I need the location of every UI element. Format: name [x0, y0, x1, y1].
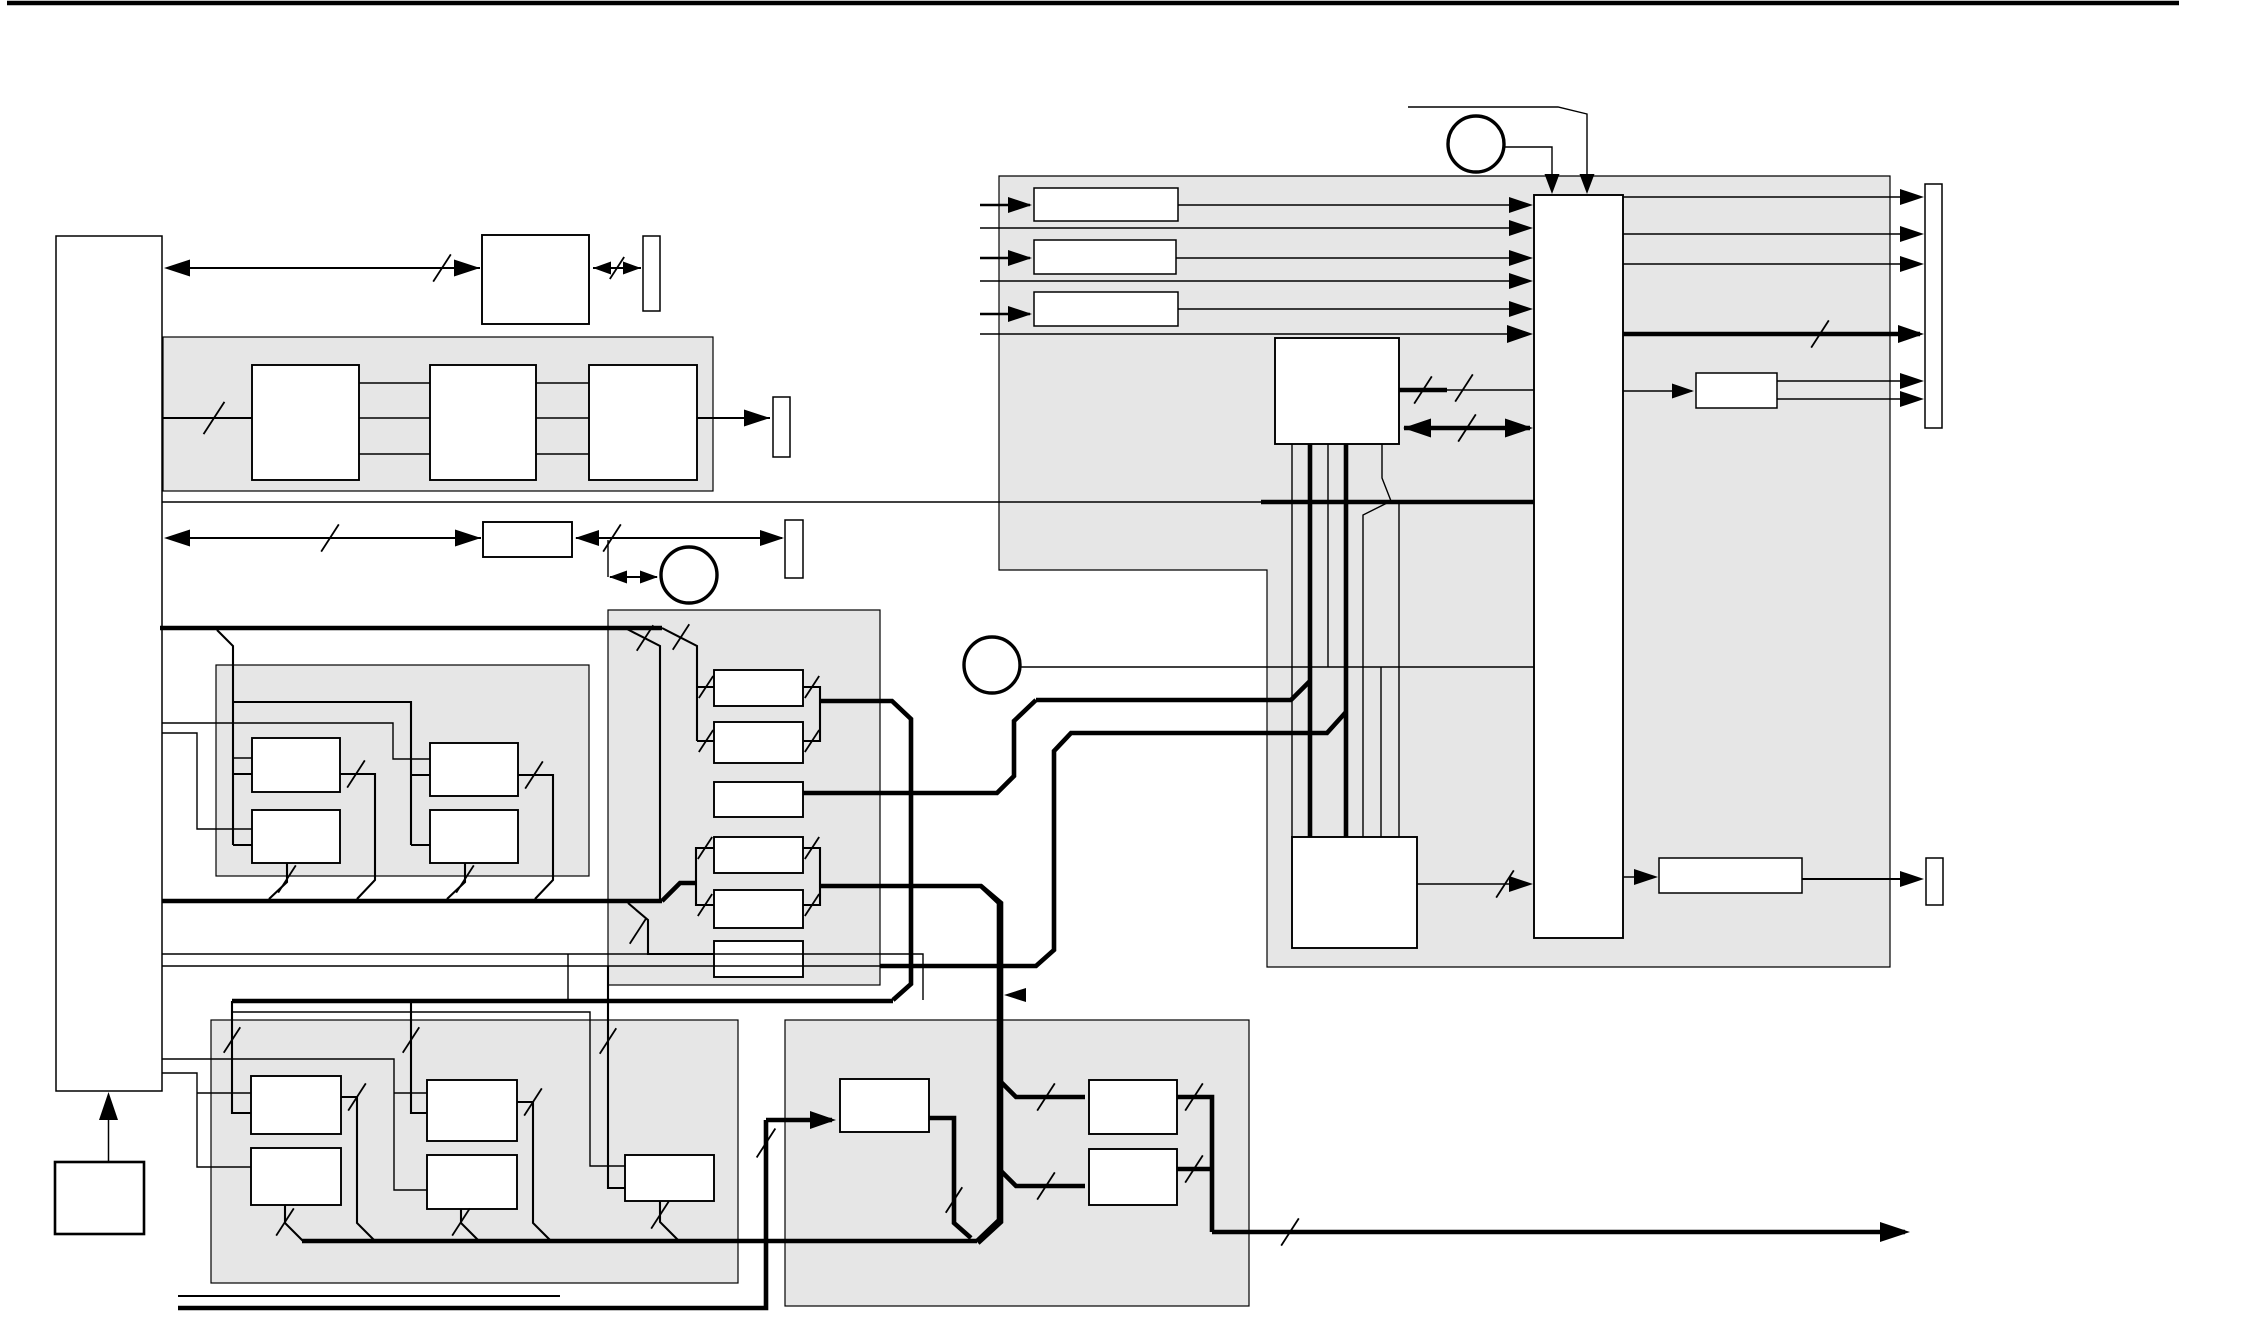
control box: [1275, 338, 1399, 444]
wire thin y1012 line to E: [232, 1012, 625, 1166]
circle c1: [1448, 116, 1504, 172]
wire S3 output to column: [1178, 308, 1528, 310]
box S2 stacked: [1034, 240, 1176, 274]
wire c3 to column thin y667: [1020, 666, 1534, 668]
wire A: bracket to vertical x911: [820, 701, 911, 1000]
wire underpass 2 to column: [980, 280, 1528, 282]
box V3: [589, 365, 697, 480]
box A1: [252, 738, 340, 792]
box F: [840, 1079, 929, 1132]
wire c1 to column top: [1504, 147, 1552, 186]
wire R1 feed stub: [697, 686, 714, 688]
small box right S1box: [1696, 373, 1777, 408]
wire D1 output to bus3: [517, 1102, 551, 1241]
wire R1/R2 right bracket: [803, 687, 820, 741]
wire column output y197 to port6: [1623, 196, 1920, 198]
wire column output y264 to port6: [1623, 263, 1920, 265]
wire input arrow to S1: [980, 204, 1030, 206]
wire stub to B1 thick: [411, 774, 430, 776]
port stub top-left: [643, 236, 660, 311]
wire decoder to column arrow with slash: [1417, 883, 1528, 885]
wire circle c3 line with branch x1381: [1380, 667, 1382, 837]
wire control to decoder thin x1292: [1291, 444, 1293, 837]
box G2: [1089, 1149, 1177, 1205]
box D2: [427, 1155, 517, 1209]
wire branch to G2: [999, 1169, 1085, 1186]
gray region: C/D register nest (bottom left): [211, 1020, 738, 1283]
wire C full path: control to bus via y966: [880, 712, 1346, 966]
wire S1box output y381: [1777, 380, 1920, 382]
wire R2 feed stub: [697, 740, 714, 742]
wire bus to small box double arrow with slash: [168, 537, 481, 539]
box R2: [714, 722, 803, 763]
wire branch diag1 into register column x660: [627, 629, 660, 899]
wire C1 output to bus3: [341, 1097, 375, 1241]
wire input arrow to S3: [980, 313, 1030, 315]
wire feeder bus y1059: [162, 1059, 427, 1190]
wire long output arrow y1232: [1212, 1230, 1905, 1235]
wire V2-V3 connectors: [536, 382, 589, 384]
wire stub to B2 thick: [411, 844, 430, 846]
wire long data line y502 thick part to column: [1261, 500, 1536, 505]
wire S2 output to column: [1176, 257, 1528, 259]
decoder box: [1292, 837, 1417, 948]
box B1: [430, 743, 518, 796]
box R6: [714, 941, 803, 977]
wire bus to box1 double arrow with slash: [168, 267, 480, 269]
clock box: [55, 1162, 144, 1234]
gray region: pipeline block (top left): [163, 337, 713, 491]
wire F output down to bus3 end: [929, 1118, 971, 1238]
wire box1 to port2 double arrow with slash: [593, 267, 641, 269]
wire underpass 1 to column: [980, 227, 1528, 229]
box S1 stacked: [1034, 188, 1178, 221]
wire small box to port5 with arrows and slash: [576, 537, 782, 539]
wire S1 output to column: [1178, 204, 1528, 206]
wire y954 drop at 568: [567, 954, 569, 1000]
circle c2: [661, 547, 717, 603]
mux column: [1534, 195, 1623, 938]
wire feeder stub C1 thin: [197, 1092, 251, 1094]
wire thin stub to A1: [233, 757, 252, 759]
wire R4/R5 left bracket: [696, 848, 714, 905]
wire R4/R5 output to vertical x1000: [820, 886, 1001, 1243]
wire feeder bus y1073 to C2: [162, 1073, 251, 1167]
wire D-block thick feeder from bus2: [411, 1001, 427, 1113]
wire G outputs to vertical x1212: [1177, 1097, 1212, 1232]
wire thin feeder F2 bus to A2: [162, 733, 252, 829]
wire clock to bus + arrow: [108, 1104, 110, 1162]
wire S1box output y399: [1777, 398, 1920, 400]
wire E bottom stub to bus3: [660, 1201, 678, 1240]
wire C2 bottom stub to bus3: [285, 1205, 303, 1241]
box R4: [714, 837, 803, 873]
wire bus to V1 with slash: [162, 417, 252, 419]
wire control to decoder thin x1328 ends at c3 line: [1327, 444, 1329, 667]
port column right: [1925, 184, 1942, 428]
wire control-column double arrow y428 thick: [1404, 426, 1530, 431]
wire R3 output to wire B vertical: [803, 700, 1036, 793]
wire V3 to port4 arrow: [697, 417, 770, 419]
wire B horizontal y700 to control box riser: [1036, 681, 1310, 700]
box V1: [252, 365, 359, 480]
wire y966 thin left part: [162, 965, 880, 967]
wire bottom medium line: [178, 1295, 560, 1297]
port stub widebox output: [1926, 858, 1943, 905]
wire A-block feeds: stub to A1: [233, 773, 252, 775]
wire column to S1box arrow: [1623, 390, 1692, 392]
wire medium drop from y966 to E: [608, 966, 625, 1188]
wire thin feeder F1 bus to B1: [162, 723, 430, 759]
wire column output y234 to port6: [1623, 233, 1920, 235]
box S3 stacked: [1034, 292, 1178, 326]
slash on C feeder: [224, 1027, 241, 1053]
wire stub to A2 thick: [233, 844, 252, 846]
wire column output y334 thick to port6 with slash: [1623, 332, 1920, 337]
wire widebox to port7: [1802, 878, 1920, 880]
box C2: [251, 1148, 341, 1205]
wire V1-V2 connectors: [359, 382, 430, 384]
wire bus2 y1001: [232, 999, 893, 1004]
box R5: [714, 890, 803, 928]
gray region: multiplier block (bottom center): [785, 1020, 1249, 1306]
wire control to decoder thick x1346: [1344, 444, 1349, 837]
wire A1 output to bus1: [340, 774, 375, 899]
widebox: [1659, 858, 1802, 893]
wire bus2 left end down to C1: [232, 1001, 251, 1113]
wire control to decoder thick x1310: [1308, 444, 1313, 837]
wire B1 output to bus1: [518, 775, 553, 899]
wire branch down to circle c2 double arrow: [607, 540, 609, 577]
wire bus1 branch down to R6: [628, 903, 714, 954]
box C1: [251, 1076, 341, 1134]
wire branch diag2 to R1/R2 bracket x697: [662, 628, 697, 741]
box G1: [1089, 1080, 1177, 1134]
wire bus3 end up to vertical x1000: [977, 886, 999, 1241]
circle c3: [964, 637, 1020, 693]
wire bottom line to F box with arrow: [178, 1120, 766, 1308]
box B2: [430, 810, 518, 863]
wire top polyline into column: [1408, 107, 1587, 186]
gray region: big right block with notch: [999, 176, 1890, 967]
wire long data line y502 thin part: [162, 501, 1261, 503]
wire R4/R5 right bracket: [803, 848, 820, 905]
wire left arrow marker near x1000: [1004, 988, 1026, 1002]
box R1: [714, 670, 803, 706]
wire column to widebox arrow: [1623, 876, 1655, 878]
wire branch to A-block vertical x233: [217, 630, 233, 845]
box V2: [430, 365, 536, 480]
bus interface column: [56, 236, 162, 1091]
wire bus1 y901: [162, 899, 662, 904]
wire B2 bottom stub to bus1: [447, 863, 465, 899]
wire input arrow to S2: [980, 257, 1030, 259]
top border line: [7, 1, 2179, 6]
box R3: [714, 782, 803, 817]
wire G2 output: [1177, 1167, 1212, 1172]
wire underpass 3 to column: [980, 333, 1528, 335]
wire A2 bottom stub to bus1: [269, 863, 287, 899]
wire bus3 y1246: [302, 1239, 977, 1244]
wire branch to G1: [999, 1080, 1085, 1097]
port stub V3 output: [773, 397, 790, 457]
box A2: [252, 810, 340, 863]
gray region: A/B register nest (mid left): [216, 665, 589, 876]
wire drop from y502 line to decoder x1399: [1398, 502, 1400, 837]
small box y538: [483, 522, 572, 557]
wire instruction bus y628: [160, 626, 662, 631]
wire A-block thick L to B-block vertical x411: [233, 702, 411, 845]
gray region: register column (middle): [608, 610, 880, 985]
box D1: [427, 1080, 517, 1141]
box B1 (top left): [482, 235, 589, 324]
box E: [625, 1155, 714, 1201]
port stub y538: [785, 520, 803, 578]
wire y954 thin feeder: [162, 954, 923, 1000]
wire D2 bottom stub to bus3: [461, 1209, 479, 1241]
wire feeder stub D1 thin: [394, 1092, 427, 1094]
wire control jog to decoder thin x1363: [1363, 444, 1391, 837]
wire bus1 end elbow up to R4R5 bracket: [662, 883, 696, 901]
wire control to column thin y390 with slashes: [1399, 388, 1447, 393]
